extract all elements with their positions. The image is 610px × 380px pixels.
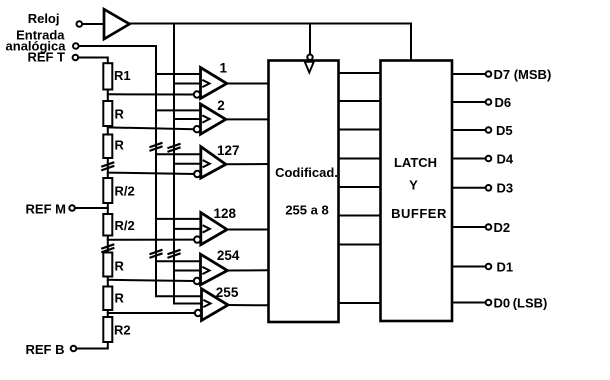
input terminal REF T	[73, 55, 79, 61]
wire output D3	[452, 187, 486, 189]
wire encoder-latch bit line 5	[339, 186, 381, 188]
svg-text:BUFFER: BUFFER	[391, 206, 447, 221]
wire ladder segment with break	[107, 236, 109, 253]
svg-text:1: 1	[220, 61, 228, 76]
strobe arrowhead comparator 127	[204, 161, 210, 167]
svg-text:D1: D1	[497, 259, 514, 274]
strobe circle at encoder top	[307, 55, 312, 60]
wire ladder segment with break	[107, 158, 109, 178]
svg-text:255: 255	[216, 285, 239, 300]
terminal D4	[486, 156, 492, 162]
wire comparator 1 output	[227, 83, 269, 85]
wire tap to comparator 128 inverting input	[108, 239, 194, 241]
terminal D7	[486, 71, 492, 77]
wire ladder segment R1 to R	[107, 90, 109, 102]
svg-text:REF M: REF M	[26, 201, 66, 216]
resistor R/2 (1st)	[103, 178, 112, 203]
wire encoder-latch bit line 2	[339, 100, 381, 102]
comparator U5 (254)	[201, 254, 228, 285]
inverting input circle comparator 127	[194, 171, 200, 177]
wire encoder-latch bit line 1	[339, 72, 381, 74]
svg-text:Y: Y	[409, 178, 418, 193]
svg-text:R1: R1	[114, 68, 131, 83]
wire output D4	[452, 158, 486, 160]
resistor R (3rd)	[103, 135, 112, 159]
svg-text:D5: D5	[496, 123, 513, 138]
wire ladder bottom to REF B	[76, 342, 108, 349]
wire comparator 255 output	[228, 304, 269, 306]
svg-text:127: 127	[217, 143, 240, 158]
terminal D5	[486, 127, 492, 133]
svg-text:D2: D2	[494, 220, 511, 235]
wire encoder-latch bit line 6	[339, 215, 381, 217]
svg-text:REF B: REF B	[26, 342, 65, 357]
terminal D0	[486, 300, 492, 306]
resistor R/2 (2nd)	[103, 214, 112, 236]
input terminal REF B	[71, 346, 77, 352]
wire output D6	[452, 101, 486, 103]
svg-text:R/2: R/2	[115, 218, 135, 233]
svg-text:D6: D6	[495, 95, 512, 110]
wire clock drop to encoder strobe	[309, 24, 311, 55]
wire comparator 127 analog input	[156, 153, 201, 155]
wire comparator 128 analog input	[156, 218, 201, 220]
strobe arrowhead comparator 1	[203, 80, 209, 86]
wire output D7	[452, 73, 486, 75]
wire clock drop to latch top	[410, 24, 412, 61]
strobe arrowhead comparator 2	[203, 116, 209, 122]
svg-text:D4: D4	[497, 152, 514, 167]
wire comparator 254 strobe input	[174, 270, 203, 272]
inverting input circle comparator 2	[194, 126, 200, 132]
resistor R1	[103, 63, 112, 89]
svg-text:R2: R2	[114, 323, 131, 338]
wire encoder-latch bit line 7	[339, 244, 381, 246]
resistor R (5th)	[103, 287, 112, 311]
latch block LATCH Y BUFFER	[381, 61, 453, 322]
svg-text:REF T: REF T	[27, 49, 65, 64]
strobe arrowhead comparator 128	[204, 226, 210, 232]
terminal D1	[486, 264, 492, 270]
svg-text:R: R	[115, 259, 125, 274]
comparator U3 (127)	[201, 147, 226, 178]
bus break marks on analog bus	[151, 143, 162, 150]
svg-text:128: 128	[214, 206, 237, 221]
svg-text:R: R	[115, 107, 125, 122]
wire REF T to ladder top	[78, 58, 108, 64]
strobe arrowhead comparator 254	[203, 267, 209, 273]
wire tap to comparator 1 inverting input	[108, 93, 194, 95]
strobe arrowhead V into encoder	[305, 62, 314, 73]
bus break marks on clock bus	[169, 144, 180, 151]
comparator U4 (128)	[201, 213, 227, 245]
wire comparator 128 output	[227, 229, 269, 231]
clock buffer U1	[104, 9, 130, 39]
svg-text:D0 (LSB): D0 (LSB)	[494, 296, 548, 311]
wire analog input bus	[79, 46, 204, 296]
inverting input circle comparator 254	[194, 278, 200, 284]
wire ladder segment	[107, 126, 109, 135]
wire clock line (buffer output to latch drop)	[130, 23, 412, 25]
wire comparator 2 output	[226, 118, 269, 120]
wire encoder-latch bit line 8	[339, 302, 381, 304]
inverting input circle comparator 255	[195, 310, 201, 316]
svg-text:R: R	[115, 138, 125, 153]
inverting input circle comparator 1	[194, 91, 200, 97]
wire comparator 128 strobe input	[174, 228, 203, 230]
wire tap to comparator 2 inverting input	[108, 127, 194, 129]
svg-text:D7 (MSB): D7 (MSB)	[494, 67, 552, 82]
wire tap to comparator 127 inverting input	[108, 173, 194, 174]
wire comparator 254 output	[227, 269, 268, 271]
ladder break mark	[102, 163, 113, 170]
wire ladder segment at REF M	[107, 203, 109, 214]
wire comparator 1 analog input	[156, 73, 201, 75]
wire tap to comparator 255 inverting input	[108, 312, 195, 314]
wire ladder segment	[107, 277, 109, 287]
wire ladder segment	[107, 310, 109, 317]
svg-text:2: 2	[217, 98, 225, 113]
input terminal Entrada analogica	[73, 43, 79, 49]
comparator U1 (1)	[201, 68, 227, 99]
wire comparator 1 strobe input	[174, 83, 203, 85]
wire comparator 254 analog input	[156, 260, 201, 262]
strobe arrowhead comparator 255	[204, 300, 210, 306]
resistor R2	[103, 317, 112, 342]
wire comparator 2 analog input	[156, 109, 201, 111]
wire comparator 127 output	[226, 163, 269, 165]
svg-text:LATCH: LATCH	[394, 155, 437, 170]
svg-text:R/2: R/2	[115, 184, 135, 199]
wire comparator 127 strobe input	[174, 163, 203, 165]
wire output D5	[452, 129, 486, 131]
inverting input circle comparator 128	[194, 236, 200, 242]
comparator U6 (255)	[202, 289, 229, 321]
svg-text:254: 254	[217, 248, 240, 263]
wire comparator 2 strobe input	[174, 118, 203, 120]
ladder break mark	[102, 245, 113, 252]
wire output D1	[452, 266, 486, 268]
terminal D2	[486, 224, 492, 230]
input terminal Reloj	[77, 21, 83, 27]
terminal D6	[486, 99, 492, 105]
wire output D0	[452, 302, 486, 304]
resistor R (4th)	[103, 253, 112, 277]
svg-text:Codificad.: Codificad.	[275, 165, 338, 180]
wire encoder-latch bit line 3	[339, 129, 381, 131]
wire clock bus drop (to comparator strobe inputs)	[174, 24, 204, 304]
svg-text:Reloj: Reloj	[28, 11, 60, 26]
wire encoder-latch bit line 4	[339, 158, 381, 160]
input terminal REF M	[69, 205, 75, 211]
encoder block Codificad. 255 a 8	[269, 61, 339, 323]
wire tap to comparator 254 inverting input	[108, 280, 194, 281]
svg-text:255 a 8: 255 a 8	[285, 203, 328, 218]
wire output D2	[452, 226, 486, 228]
svg-text:R: R	[115, 291, 125, 306]
wire REF M to ladder	[75, 207, 108, 209]
resistor R (2nd)	[103, 101, 112, 126]
comparator U2 (2)	[201, 104, 226, 134]
terminal D3	[486, 185, 492, 191]
wire Reloj terminal to clock buffer	[82, 23, 104, 25]
svg-text:D3: D3	[497, 181, 514, 196]
